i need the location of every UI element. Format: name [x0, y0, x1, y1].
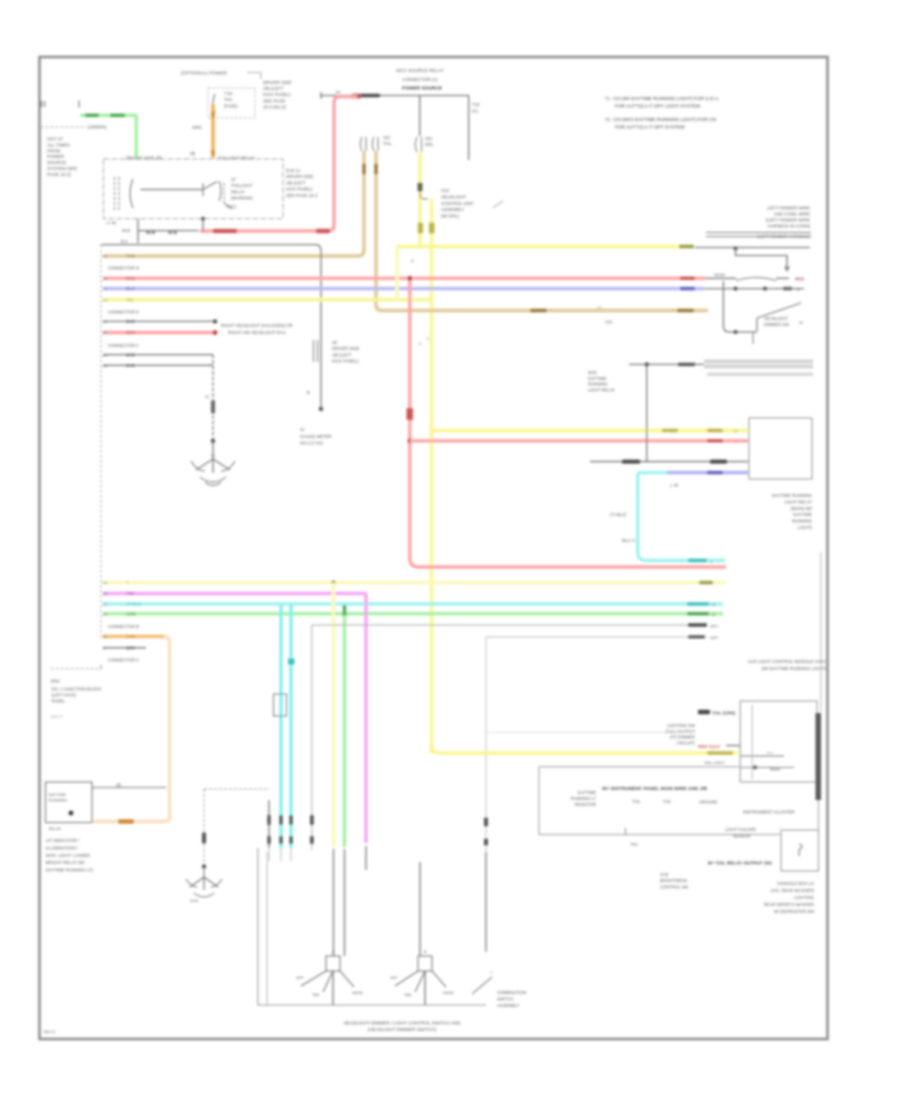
svg-text:LEFT FENDER WIRE: LEFT FENDER WIRE: [767, 206, 810, 211]
svg-text:SWITCH: SWITCH: [497, 996, 514, 1001]
svg-text:LT BLU: LT BLU: [126, 602, 141, 607]
svg-text:T18: T18: [472, 102, 480, 107]
svg-text:TAIL: TAIL: [630, 842, 639, 847]
svg-text:HEAD: HEAD: [714, 272, 725, 277]
svg-text:RIGHT HEADLIGHT (HALOGEN) OR: RIGHT HEADLIGHT (HALOGEN) OR: [221, 323, 293, 328]
svg-text:INSTRUMENT CLUSTER: INSTRUMENT CLUSTER: [743, 810, 795, 815]
svg-text:15A: 15A: [425, 136, 433, 141]
svg-text:CONTROL UNIT: CONTROL UNIT: [441, 201, 474, 206]
svg-text:CONNECTOR F: CONNECTOR F: [108, 343, 139, 348]
svg-text:(W/ DRL): (W/ DRL): [441, 214, 460, 219]
svg-text:KICK PANEL): KICK PANEL): [332, 359, 359, 364]
svg-text:A: A: [332, 949, 335, 954]
svg-text:HEADLIGHT: HEADLIGHT: [441, 194, 466, 199]
svg-text:BLU *2: BLU *2: [622, 538, 636, 543]
svg-text:Y: Y: [126, 580, 129, 585]
svg-text:GRN: GRN: [126, 611, 136, 616]
svg-text:DAYTIME: DAYTIME: [793, 512, 812, 517]
svg-text:B+ TAIL RELAY OUTPUT SIG: B+ TAIL RELAY OUTPUT SIG: [708, 861, 772, 866]
svg-text:TAIL: TAIL: [632, 799, 641, 804]
svg-text:RUNNING: RUNNING: [792, 519, 813, 524]
svg-text:1B: 1B: [103, 276, 108, 281]
svg-text:1C: 1C: [103, 286, 108, 291]
svg-text:GRY: GRY: [710, 624, 719, 629]
svg-text:SENSOR: SENSOR: [733, 834, 751, 839]
svg-text:J/B (LEFT: J/B (LEFT: [332, 352, 352, 357]
svg-text:B: B: [307, 390, 310, 395]
svg-text:RUNNING: RUNNING: [588, 382, 608, 387]
svg-text:TAILLIGHT: TAILLIGHT: [231, 183, 253, 188]
svg-text:(A): (A): [472, 109, 478, 114]
svg-text:19: 19: [711, 602, 716, 607]
svg-text:(TAIL) OUTPUT: (TAIL) OUTPUT: [665, 729, 695, 734]
svg-text:TAIL (GRN): TAIL (GRN): [712, 711, 736, 716]
svg-text:COMBINATION: COMBINATION: [497, 990, 526, 995]
svg-text:BLU: BLU: [126, 286, 135, 291]
svg-text:10A: 10A: [383, 135, 391, 140]
svg-text:SOURCE: SOURCE: [47, 160, 66, 165]
svg-text:DRIVER SIDE: DRIVER SIDE: [263, 80, 292, 85]
svg-text:2F: 2F: [103, 645, 108, 650]
svg-text:RED: RED: [126, 276, 135, 281]
svg-text:DRIVER SIDE: DRIVER SIDE: [332, 346, 360, 351]
svg-text:(TO DIMMER: (TO DIMMER: [670, 735, 695, 740]
svg-text:(MAIN) (W/: (MAIN) (W/: [791, 506, 813, 511]
svg-text:7: 7: [490, 970, 492, 975]
svg-text:TAIL: TAIL: [224, 97, 233, 102]
svg-text:RED: RED: [126, 330, 135, 335]
svg-text:1A: 1A: [103, 254, 108, 259]
svg-text:(MARKING:: (MARKING:: [231, 196, 254, 201]
svg-text:ILLUMINATION /: ILLUMINATION /: [46, 845, 79, 850]
svg-text:2E: 2E: [103, 634, 108, 639]
svg-text:3B: 3B: [103, 363, 108, 368]
svg-text:CONNECTOR C: CONNECTOR C: [108, 658, 139, 663]
svg-text:DIMMER SW: DIMMER SW: [764, 322, 789, 327]
svg-text:DRIVER SIDE J/B: DRIVER SIDE J/B: [126, 156, 162, 161]
svg-text:RELAY: RELAY: [49, 826, 62, 831]
svg-text:TAIL: TAIL: [766, 751, 774, 755]
svg-text:RELAY: RELAY: [231, 189, 245, 194]
svg-text:W-B: W-B: [126, 352, 135, 357]
svg-text:SYSTEM (SEE: SYSTEM (SEE: [47, 166, 77, 171]
svg-text:2B: 2B: [190, 151, 195, 156]
svg-text:W-B: W-B: [146, 230, 156, 235]
svg-text:DAYTIME RUNNING: DAYTIME RUNNING: [772, 493, 813, 498]
svg-text:BRIGHTNESS: BRIGHTNESS: [660, 878, 687, 883]
svg-text:CONNECTOR E: CONNECTOR E: [108, 310, 139, 315]
svg-text:3A: 3A: [103, 352, 108, 357]
svg-text:2B: 2B: [103, 591, 108, 596]
svg-text:OFF: OFF: [296, 975, 304, 980]
svg-text:ALL TIMES: ALL TIMES: [47, 142, 70, 147]
svg-text:ORN: ORN: [192, 125, 202, 130]
svg-text:CONTROL SW: CONTROL SW: [660, 884, 688, 889]
svg-text:18: 18: [733, 429, 738, 434]
svg-text:HARNESS IN CONN): HARNESS IN CONN): [768, 224, 811, 229]
svg-text:W-B: W-B: [190, 898, 198, 903]
svg-text:YEL: YEL: [126, 297, 135, 302]
svg-text:(LEFT FENDER WIRE: (LEFT FENDER WIRE: [766, 218, 810, 223]
svg-text:POWER SOURCE: POWER SOURCE: [402, 86, 443, 92]
svg-text:A/T INDICATOR /: A/T INDICATOR /: [46, 838, 80, 843]
svg-text:LIGHTING SW: LIGHTING SW: [667, 723, 695, 728]
svg-text:L 18: L 18: [670, 483, 679, 488]
svg-text:PANEL: PANEL: [52, 699, 66, 704]
svg-text:REAR WIPER-S WASHER: REAR WIPER-S WASHER: [764, 902, 814, 907]
svg-text:2D: 2D: [103, 611, 108, 616]
svg-text:2A: 2A: [103, 580, 108, 585]
svg-text:2F: 2F: [103, 330, 108, 335]
svg-text:FOR ALT*T2) A-T OPT SYSTEM: FOR ALT*T2) A-T OPT SYSTEM: [615, 125, 685, 131]
svg-text:RED GA17: RED GA17: [698, 744, 721, 749]
svg-text:AND COWL WIRE: AND COWL WIRE: [774, 212, 810, 217]
svg-text:4E: 4E: [116, 783, 121, 788]
svg-text:B: B: [424, 949, 427, 954]
svg-text:CONNECTOR (A): CONNECTOR (A): [402, 77, 438, 82]
svg-text:W-B: W-B: [126, 319, 135, 324]
svg-text:(LEFT KICK): (LEFT KICK): [52, 693, 77, 698]
svg-text:HEAD: HEAD: [352, 990, 363, 995]
svg-text:1D: 1D: [103, 297, 108, 302]
svg-text:CONNECTOR B: CONNECTOR B: [108, 624, 139, 629]
svg-text:TAIL LIGHT: TAIL LIGHT: [704, 760, 725, 765]
svg-text:W-B: W-B: [122, 228, 130, 233]
svg-text:B1: B1: [336, 90, 342, 95]
svg-text:GAUGE METER: GAUGE METER: [300, 434, 332, 439]
svg-text:1E: 1E: [332, 340, 337, 345]
svg-text:*2 : CO (W/O DAYTIME RUNNING L: *2 : CO (W/O DAYTIME RUNNING LIGHT) FOR …: [605, 117, 717, 123]
svg-text:NO. 2 JUNCTION BLOCK: NO. 2 JUNCTION BLOCK: [52, 687, 102, 692]
svg-text:DAYTIME RUNNING LT): DAYTIME RUNNING LT): [46, 868, 94, 873]
svg-text:SEE P.: SEE P.: [51, 714, 63, 719]
svg-text:A: A: [411, 258, 414, 263]
svg-text:W16: W16: [51, 679, 60, 684]
svg-text:DAYTIME: DAYTIME: [49, 792, 67, 797]
svg-text:GROUND: GROUND: [699, 800, 717, 805]
svg-text:CIRCUIT): CIRCUIT): [677, 740, 696, 745]
svg-text:TAIL): TAIL): [226, 204, 237, 209]
svg-text:HEADLIGHT DIMMER / LIGHT CONTR: HEADLIGHT DIMMER / LIGHT CONTROL SWITCH …: [343, 1021, 461, 1026]
svg-text:LIGHT FAILURE: LIGHT FAILURE: [725, 827, 756, 832]
svg-text:ASSEMBLY: ASSEMBLY: [441, 207, 464, 212]
svg-text:BRIGHT RELAY (W/: BRIGHT RELAY (W/: [46, 860, 86, 865]
svg-text:DAYTIME: DAYTIME: [578, 790, 597, 795]
svg-text:SEE PAGE 10-4: SEE PAGE 10-4: [286, 193, 318, 198]
svg-text:J/B (LEFT: J/B (LEFT: [286, 180, 306, 185]
svg-text:7.5A: 7.5A: [224, 91, 233, 96]
svg-text:IE: IE: [211, 454, 215, 458]
svg-text:(*1 BLU): (*1 BLU): [610, 512, 627, 517]
svg-text:HEADLIGHT: HEADLIGHT: [764, 316, 788, 321]
svg-text:DRL: DRL: [425, 142, 434, 147]
svg-text:TAN: TAN: [126, 254, 135, 259]
svg-text:CONNECTOR D: CONNECTOR D: [108, 266, 139, 271]
svg-text:AUX LIGHT CONTROL MODULE ASSY: AUX LIGHT CONTROL MODULE ASSY: [748, 659, 826, 664]
svg-text:10-4 (No.2): 10-4 (No.2): [263, 104, 286, 109]
svg-text:RED: RED: [795, 277, 804, 282]
svg-text:POWER: POWER: [47, 154, 65, 159]
svg-text:1A: 1A: [597, 306, 602, 310]
svg-text:J/B (LEFT: J/B (LEFT: [263, 86, 284, 91]
svg-text:RUNNING LT: RUNNING LT: [571, 796, 597, 801]
svg-text:FROM: FROM: [47, 148, 60, 153]
svg-text:B-W 1J: B-W 1J: [286, 168, 300, 173]
svg-text:GRY: GRY: [710, 635, 719, 640]
svg-text:1J 4B: 1J 4B: [106, 220, 117, 225]
svg-text:MCC SOURCE RELAY: MCC SOURCE RELAY: [396, 68, 443, 73]
svg-text:(OPTIONAL) POWER: (OPTIONAL) POWER: [181, 71, 227, 76]
svg-text:(W/ DAYTIME RUNNING LIGHT): (W/ DAYTIME RUNNING LIGHT): [761, 666, 826, 671]
svg-text:FOR ALT*T2) A-T OPT LIGHT SYST: FOR ALT*T2) A-T OPT LIGHT SYSTEM: [615, 104, 700, 110]
svg-text:ORN: ORN: [126, 634, 136, 639]
svg-text:INTR. LIGHT / LOWER: INTR. LIGHT / LOWER: [46, 853, 90, 858]
svg-text:LIGHT RELAY: LIGHT RELAY: [784, 499, 812, 504]
svg-text:SEE PAGE: SEE PAGE: [263, 98, 285, 103]
svg-text:MAIN: MAIN: [770, 767, 780, 772]
svg-text:HOT AT: HOT AT: [47, 137, 63, 142]
svg-text:1F: 1F: [231, 177, 236, 182]
svg-text:*1: *1: [426, 336, 430, 341]
svg-text:W+ INSTRUMENT PANEL MAIN WIRE: W+ INSTRUMENT PANEL MAIN WIRE AND J/B: [602, 786, 708, 792]
svg-text:LIGHT RELAY: LIGHT RELAY: [588, 387, 615, 392]
svg-text:LIGHTING: LIGHTING: [794, 895, 814, 900]
svg-text:(A/C: REAR WASHER): (A/C: REAR WASHER): [771, 888, 815, 893]
svg-text:TAIL: TAIL: [312, 992, 321, 997]
svg-text:PNK: PNK: [126, 591, 136, 596]
svg-text:TAIL: TAIL: [663, 799, 672, 804]
svg-text:(FUSE): (FUSE): [224, 104, 238, 109]
svg-text:W/ DEFROSTER SW: W/ DEFROSTER SW: [774, 909, 814, 914]
svg-text:NO.2 (7.5A): NO.2 (7.5A): [300, 441, 323, 446]
svg-text:18: 18: [711, 612, 716, 617]
svg-text:OFF: OFF: [390, 975, 398, 980]
svg-text:RESISTOR: RESISTOR: [575, 802, 596, 807]
svg-text:KICK PANEL): KICK PANEL): [286, 187, 313, 192]
svg-text:W-B: W-B: [126, 363, 135, 368]
svg-text:HEAD: HEAD: [443, 990, 454, 995]
svg-text:CONSOLE BOX LH: CONSOLE BOX LH: [777, 881, 814, 886]
svg-text:H13: H13: [441, 188, 450, 193]
svg-text:GA6: GA6: [660, 872, 669, 877]
svg-text:PAGE 10-2): PAGE 10-2): [47, 172, 71, 177]
svg-text:DRIVER SIDE: DRIVER SIDE: [286, 174, 314, 179]
svg-text:B10-C: B10-C: [44, 1029, 55, 1034]
svg-text:2C: 2C: [103, 602, 108, 607]
svg-text:2E: 2E: [103, 319, 108, 324]
svg-text:*1 : CO (W/ DAYTIME RUNNING LI: *1 : CO (W/ DAYTIME RUNNING LIGHT) FOR U…: [605, 96, 719, 102]
svg-text:A21: A21: [605, 320, 613, 325]
svg-text:B 5: B 5: [121, 239, 128, 244]
svg-text:W-B: W-B: [168, 230, 178, 235]
svg-text:W16: W16: [588, 370, 597, 375]
svg-text:IH: IH: [205, 394, 209, 399]
svg-text:LIGHT): LIGHT): [798, 525, 813, 530]
svg-text:DAYTIME: DAYTIME: [588, 376, 607, 381]
svg-text:ASSEMBLY: ASSEMBLY: [497, 1003, 519, 1008]
svg-text:KICK PANEL): KICK PANEL): [263, 92, 291, 97]
svg-text:TAIL: TAIL: [383, 141, 392, 146]
svg-text:TAILLIGHT RELAY: TAILLIGHT RELAY: [218, 156, 255, 161]
svg-text:RIGHT HID HEADLIGHT ECU: RIGHT HID HEADLIGHT ECU: [228, 330, 286, 335]
svg-text:(HEADLIGHT DIMMER SWITCH): (HEADLIGHT DIMMER SWITCH): [368, 1027, 437, 1032]
svg-text:(GREEN): (GREEN): [88, 125, 107, 130]
svg-text:HI: HI: [799, 320, 803, 325]
svg-text:IG: IG: [300, 427, 305, 432]
svg-text:RUNNING: RUNNING: [49, 798, 68, 803]
svg-text:TAIL: TAIL: [404, 992, 413, 997]
svg-text:GRY: GRY: [126, 645, 135, 650]
